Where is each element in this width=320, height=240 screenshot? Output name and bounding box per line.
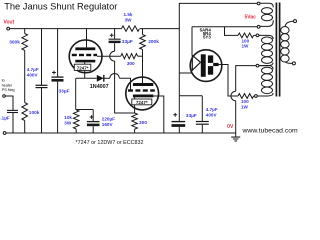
svg-text:3W: 3W — [125, 18, 133, 23]
svg-text:1W: 1W — [241, 105, 249, 110]
svg-text:The Janus Shunt Regulator: The Janus Shunt Regulator — [4, 2, 117, 12]
svg-text:Vout: Vout — [4, 20, 15, 26]
svg-text:220µF: 220µF — [102, 116, 115, 121]
svg-text:1W: 1W — [242, 44, 250, 49]
svg-text:400V: 400V — [27, 73, 39, 78]
svg-text:4.7µF: 4.7µF — [27, 67, 39, 72]
svg-text:5Vac: 5Vac — [245, 15, 257, 21]
svg-text:PS Neg: PS Neg — [2, 87, 15, 92]
svg-text:3W: 3W — [64, 120, 72, 125]
svg-text:1.5k: 1.5k — [124, 12, 133, 17]
svg-text:7247*: 7247* — [77, 66, 89, 71]
svg-text:100: 100 — [241, 99, 249, 104]
svg-text:33µF: 33µF — [59, 89, 70, 95]
svg-text:33µF: 33µF — [186, 113, 197, 119]
svg-text:1N4007: 1N4007 — [90, 84, 109, 90]
svg-text:0V: 0V — [227, 124, 234, 130]
svg-text:*7247 or 12DW7 or ECC832: *7247 or 12DW7 or ECC832 — [76, 140, 144, 146]
svg-text:.1µF: .1µF — [0, 115, 9, 120]
svg-text:400V: 400V — [206, 112, 218, 117]
svg-text:200k: 200k — [148, 39, 159, 45]
svg-text:5Y3: 5Y3 — [203, 35, 211, 40]
svg-text:33µF: 33µF — [122, 39, 133, 45]
svg-text:7247*: 7247* — [136, 100, 148, 105]
svg-text:160V: 160V — [102, 122, 114, 127]
svg-text:300: 300 — [127, 61, 135, 67]
svg-text:10k: 10k — [64, 115, 72, 120]
svg-text:4.7µF: 4.7µF — [206, 107, 218, 112]
svg-text:300: 300 — [139, 120, 147, 126]
svg-text:300k: 300k — [9, 40, 20, 46]
svg-text:100: 100 — [242, 38, 250, 43]
svg-text:100k: 100k — [29, 110, 40, 116]
svg-text:www.tubecad.com: www.tubecad.com — [242, 127, 298, 134]
